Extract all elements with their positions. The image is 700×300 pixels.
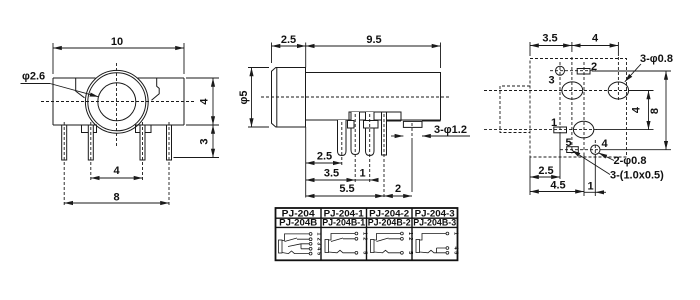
svg-text:4: 4: [199, 98, 211, 105]
footprint outline dashed: [530, 59, 627, 158]
dimension 2 below: [384, 183, 412, 196]
left ear notch: [76, 78, 85, 98]
pin 1 (U shape): [338, 120, 347, 156]
svg-text:3-φ0.8: 3-φ0.8: [640, 53, 673, 65]
dimension 4 bottom: [91, 165, 143, 178]
pin 2 (U shape): [351, 112, 360, 155]
cell3 terminal circles: [401, 232, 404, 254]
svg-text:3: 3: [549, 74, 555, 86]
svg-text:PJ-204B-2: PJ-204B-2: [368, 218, 411, 229]
svg-text:10: 10: [111, 36, 123, 48]
label 3-phi0.8 with leader: [625, 53, 673, 82]
cell2 terminal circles: [355, 232, 358, 254]
cell4 barrel: [416, 240, 420, 253]
svg-text:3-φ1.2: 3-φ1.2: [434, 124, 467, 136]
svg-text:φ2.6: φ2.6: [22, 71, 45, 83]
dimension 1 bottom: [584, 181, 606, 193]
svg-text:5: 5: [316, 252, 322, 255]
svg-text:9.5: 9.5: [366, 34, 381, 46]
svg-text:4: 4: [592, 33, 599, 45]
svg-text:PJ-204B-3: PJ-204B-3: [413, 218, 456, 229]
main barrel body: [306, 73, 441, 121]
cell3 tip riser to terminal 1: [374, 234, 400, 241]
svg-text:3.5: 3.5: [324, 168, 339, 180]
slot 2: [577, 69, 590, 75]
body housing outline: [53, 78, 184, 125]
pin centerlines: [342, 114, 412, 198]
pin 3 shoulder: [364, 121, 379, 129]
dimension 3 right side: [174, 125, 220, 158]
leg outer-right: [167, 125, 172, 160]
label 3-(1.0x0.5) with leader: [572, 150, 664, 181]
svg-text:PJ-204B-1: PJ-204B-1: [322, 218, 366, 229]
svg-text:5: 5: [361, 251, 367, 254]
centerlines vertical: [560, 57, 618, 154]
leg centerlines: [64, 122, 169, 206]
svg-text:5.5: 5.5: [339, 183, 354, 195]
pcb tab: [403, 121, 422, 127]
center axis line: [261, 96, 449, 98]
cell1 switch arm to terminal 2: [285, 238, 310, 242]
inner bezel ring: [88, 73, 146, 131]
svg-text:2: 2: [361, 237, 367, 240]
table header row 2: [279, 218, 456, 229]
svg-text:1: 1: [316, 232, 322, 235]
cap chamfer ridge: [276, 68, 278, 128]
body slot recess: [349, 112, 401, 121]
dimension 4 right side: [186, 78, 219, 125]
cell3 switch arm to terminal 2: [377, 238, 401, 242]
svg-text:φ5: φ5: [238, 91, 250, 105]
slot 5: [567, 147, 579, 153]
center crosshair: [41, 63, 194, 147]
svg-text:PJ-204B: PJ-204B: [279, 218, 317, 229]
dimension 10 top: [53, 36, 184, 74]
cell3 barrel: [371, 240, 375, 253]
centerlines horizontal: [484, 71, 633, 150]
cell4 tip riser to terminal 1: [420, 234, 446, 241]
svg-text:5: 5: [452, 251, 458, 254]
cell1 bracket terminals 3-4: [288, 244, 309, 249]
large hole right: [608, 82, 628, 99]
svg-text:1: 1: [361, 232, 367, 235]
cell3 terminal digits: [407, 232, 413, 254]
pin 3 (U shape): [366, 112, 375, 156]
label 3-phi1.2 with arrows: [391, 124, 470, 136]
tab centerline lower: [411, 141, 413, 192]
svg-text:3-(1.0x0.5): 3-(1.0x0.5): [610, 170, 664, 182]
cell2 sleeve zigzag to terminal 5: [329, 250, 355, 253]
svg-text:3.5: 3.5: [542, 33, 557, 45]
cell4 terminal digits: [452, 232, 458, 254]
schematic cell 4 (PJ-204-3): [416, 234, 446, 253]
hole 4 (small circle): [591, 145, 600, 154]
svg-text:8: 8: [649, 108, 661, 114]
svg-text:8: 8: [113, 192, 119, 204]
bottom extension lines: [530, 135, 595, 196]
cell1 barrel: [279, 240, 283, 253]
svg-text:3: 3: [316, 242, 322, 245]
svg-text:4: 4: [602, 138, 609, 150]
outer bezel circle: [85, 70, 148, 133]
cell4 bracket terminals 4-5: [437, 248, 446, 253]
svg-text:4: 4: [631, 106, 643, 113]
jack hole circle: [98, 83, 136, 121]
dimension 1 below: [355, 168, 377, 181]
hole mid (below slot 2): [573, 121, 593, 138]
dimension 2.5 below: [306, 151, 342, 164]
label 2-phi0.8 with leader: [599, 153, 647, 167]
slot 1: [554, 127, 567, 133]
dimension 8 right: [592, 71, 671, 150]
large hole left: [562, 82, 583, 99]
svg-text:1: 1: [359, 168, 365, 180]
cell1 terminal circles: [309, 233, 312, 256]
schematic cell 1 (PJ-204): [279, 234, 310, 254]
svg-text:2: 2: [407, 237, 413, 240]
dimension 2.5 bottom: [530, 165, 560, 177]
cell3 sleeve zigzag to terminal 5: [374, 250, 400, 253]
pin 4 (flat pin): [382, 112, 387, 155]
dimension 4 top: [572, 33, 619, 46]
svg-text:1: 1: [551, 117, 557, 129]
svg-text:2-φ0.8: 2-φ0.8: [614, 155, 647, 167]
cell1 terminal digits: [316, 232, 322, 255]
svg-text:5: 5: [566, 137, 572, 149]
dimension 3.5 top: [530, 33, 618, 57]
label phi2.6 with leader: [21, 71, 99, 97]
cell4 sleeve zigzag to terminal 5: [420, 250, 446, 253]
dimension 4 right: [596, 91, 654, 130]
table grid: [276, 208, 458, 260]
svg-text:4: 4: [113, 165, 120, 177]
schematic cell 3 (PJ-204-2): [371, 234, 401, 253]
svg-text:2.5: 2.5: [538, 165, 553, 177]
dimension 2.5 top: [272, 34, 306, 63]
cell1 tip riser to terminal 1: [282, 234, 309, 241]
table header row 1: [282, 208, 455, 219]
svg-text:2: 2: [316, 238, 322, 241]
svg-text:1: 1: [587, 181, 593, 193]
leg inner-right: [140, 125, 145, 160]
cell2 terminal digits: [361, 232, 367, 254]
dimension phi5 left: [238, 68, 269, 128]
svg-text:3: 3: [199, 138, 211, 144]
dimension 9.5 top: [306, 34, 441, 68]
extension line from body left bottom: [305, 127, 307, 198]
svg-text:2.5: 2.5: [317, 151, 332, 163]
dimension 3.5 below: [306, 168, 356, 181]
pin 2 collar: [348, 121, 355, 129]
svg-text:1: 1: [407, 232, 413, 235]
svg-text:4.5: 4.5: [550, 180, 565, 192]
dimension 4.5 bottom: [530, 180, 584, 192]
cell2 tip riser to terminal 1: [329, 234, 355, 241]
svg-text:1: 1: [452, 232, 458, 235]
cell1 sleeve zigzag to terminal 5: [282, 251, 309, 254]
svg-text:2: 2: [395, 183, 401, 195]
svg-text:5: 5: [407, 251, 413, 254]
cell2 barrel: [325, 240, 329, 253]
schematic cell 2 (PJ-204-1): [325, 234, 355, 253]
mounting tab left: [82, 125, 97, 133]
cap / bezel nut: [272, 68, 306, 128]
hole 3 (small circle): [556, 66, 565, 75]
dimension 5.5 below: [306, 183, 384, 196]
mounting tab right: [136, 125, 152, 133]
cell4 terminal circles: [446, 232, 449, 254]
leg inner-left: [88, 125, 93, 160]
barrel silhouette left dashed: [500, 86, 530, 133]
svg-text:2.5: 2.5: [281, 34, 296, 46]
dimension 8 bottom: [64, 192, 169, 204]
body step right of pin 4: [387, 120, 441, 122]
right ear notch: [152, 78, 160, 100]
leg outer-left: [62, 125, 67, 160]
cell2 switch arm to terminal 2: [331, 238, 355, 242]
